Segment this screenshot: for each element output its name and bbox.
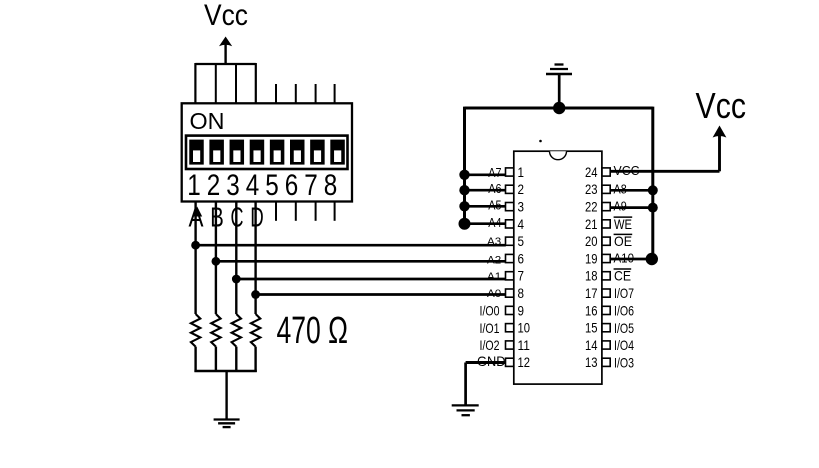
wire net A (DIP pin 1 down to resistor R1) <box>194 202 196 315</box>
svg-text:CE: CE <box>614 269 631 284</box>
wire to U1 pin 3 (A5) <box>465 205 506 208</box>
svg-text:Vcc: Vcc <box>204 0 248 32</box>
wire net D (DIP pin 4 down to resistor R4) <box>254 202 256 315</box>
junction A8 <box>648 185 658 195</box>
ground (top, inverted symbol) <box>546 65 572 75</box>
svg-text:A5: A5 <box>488 197 501 212</box>
svg-text:20: 20 <box>585 234 598 249</box>
wire net A to U1 pin 5 (A3) <box>196 244 506 247</box>
ground (DIP pull-downs) <box>214 420 240 428</box>
junction A5 <box>459 201 469 211</box>
svg-text:A9: A9 <box>614 199 627 214</box>
svg-text:4: 4 <box>518 217 525 232</box>
junction top bus / ground <box>553 102 565 114</box>
svg-text:470 Ω: 470 Ω <box>277 310 349 352</box>
svg-text:10: 10 <box>518 321 531 336</box>
svg-text:I/O4: I/O4 <box>614 338 634 353</box>
ground (U1 GND) <box>452 405 479 415</box>
svg-text:A3: A3 <box>487 236 501 248</box>
svg-text:1: 1 <box>518 165 525 180</box>
wire top ground stem <box>558 74 561 108</box>
svg-text:21: 21 <box>585 217 598 232</box>
svg-text:C: C <box>231 202 244 233</box>
svg-text:5: 5 <box>265 169 279 202</box>
svg-text:I/O0: I/O0 <box>480 304 500 319</box>
svg-text:2: 2 <box>518 182 525 197</box>
wire U1 pin 23 (A8) to bus <box>610 189 653 192</box>
svg-text:18: 18 <box>585 269 598 284</box>
wire to U1 pin 1 (A7) <box>465 173 506 176</box>
svg-text:3: 3 <box>226 169 240 202</box>
svg-text:6: 6 <box>518 251 525 266</box>
wire net C to U1 pin 7 (A1) <box>236 278 506 281</box>
wire to U1 pin 2 (A6) <box>465 189 506 192</box>
wire R4 bottom to bus <box>254 347 256 372</box>
wire right vertical bus (A8/A9/A10 tie) <box>651 107 654 259</box>
svg-text:23: 23 <box>585 182 598 197</box>
svg-text:5: 5 <box>518 234 525 249</box>
DIP switch S1 top pins 1-4 commoned to Vcc <box>195 63 255 104</box>
svg-text:1: 1 <box>187 169 201 202</box>
wire to U1 pin 4 (A4) <box>465 222 506 225</box>
power symbol arrow Vcc (IC) <box>713 126 727 138</box>
U1 left pin boxes 1-12 <box>506 168 514 367</box>
DIP switch S1 actuator row <box>186 136 348 169</box>
resistor R1 470 ohm <box>191 314 200 347</box>
svg-text:22: 22 <box>585 200 598 215</box>
svg-text:8: 8 <box>324 169 338 202</box>
svg-text:15: 15 <box>585 321 598 336</box>
resistor R2 470 ohm <box>211 314 220 347</box>
wire net D to U1 pin 8 (A0) <box>256 293 506 296</box>
junction A9 <box>648 203 658 213</box>
junction A6 <box>459 185 469 195</box>
svg-text:19: 19 <box>585 251 598 266</box>
svg-text:A1: A1 <box>487 271 501 283</box>
wire R2 bottom to bus <box>215 347 217 372</box>
wire U1 pin 19 (A10) to bus <box>610 258 653 261</box>
svg-text:A2: A2 <box>487 254 501 266</box>
svg-text:12: 12 <box>518 355 531 370</box>
wire net B to U1 pin 6 (A2) <box>216 260 506 263</box>
junction A7 <box>459 170 469 180</box>
svg-text:14: 14 <box>585 338 598 353</box>
U1 right pin boxes 24-13 <box>602 168 610 367</box>
U1 pin numbers left 1-12 <box>518 165 531 370</box>
svg-text:7: 7 <box>518 269 525 284</box>
svg-text:D: D <box>250 202 264 233</box>
svg-text:8: 8 <box>518 286 525 301</box>
svg-text:I/O7: I/O7 <box>614 286 634 301</box>
svg-text:13: 13 <box>585 355 598 370</box>
junction net B <box>212 257 221 266</box>
svg-text:I/O1: I/O1 <box>480 321 500 336</box>
resistor R4 470 ohm <box>251 314 260 347</box>
svg-text:6: 6 <box>285 169 299 202</box>
svg-text:I/O2: I/O2 <box>480 338 500 353</box>
svg-text:3: 3 <box>518 200 525 215</box>
svg-text:I/O6: I/O6 <box>614 304 634 319</box>
svg-text:24: 24 <box>585 165 598 180</box>
DIP switch S1 position numbers 1-8 <box>187 169 337 202</box>
wire resistor bottom bus <box>194 370 256 372</box>
junction net C <box>232 275 241 284</box>
svg-text:B: B <box>210 202 224 233</box>
wire top horizontal bus <box>465 107 653 110</box>
svg-text:16: 16 <box>585 303 598 318</box>
U1 pin numbers right 24-13 <box>585 165 598 370</box>
svg-text:I/O5: I/O5 <box>614 321 634 336</box>
svg-text:A0: A0 <box>487 288 501 300</box>
U1 left pin labels <box>477 165 506 369</box>
svg-text:I/O3: I/O3 <box>614 355 634 370</box>
wire R3 bottom to bus <box>235 347 237 372</box>
svg-text:WE: WE <box>614 217 632 232</box>
DIP switch S1 bottom pin stubs 5-8 <box>276 202 335 221</box>
svg-text:4: 4 <box>246 169 260 202</box>
junction A4 <box>459 218 471 230</box>
svg-text:A6: A6 <box>488 181 501 196</box>
IC U1 (6116 SRAM) body <box>514 151 602 384</box>
resistor R3 470 ohm <box>232 314 241 347</box>
junction net D <box>251 290 260 299</box>
svg-text:7: 7 <box>304 169 318 202</box>
svg-text:17: 17 <box>585 286 598 301</box>
DIP switch S1 top pin stubs 5-8 <box>276 84 335 104</box>
svg-text:2: 2 <box>207 169 221 202</box>
wire U1 pin 24 (VCC) to Vcc arrow <box>610 135 719 171</box>
wire U1 pin 22 (A9) to bus <box>610 206 653 209</box>
svg-text:A7: A7 <box>488 165 501 180</box>
wire U1 pin 12 (GND) to ground <box>466 363 506 405</box>
U1 right pin labels <box>614 163 640 370</box>
node label A <box>189 202 204 233</box>
junction A10 <box>646 253 658 265</box>
svg-text:A: A <box>189 202 204 233</box>
svg-text:9: 9 <box>518 303 525 318</box>
svg-text:A8: A8 <box>614 181 627 196</box>
stray mark above U1 <box>539 140 542 143</box>
svg-text:11: 11 <box>518 338 531 353</box>
svg-text:ON: ON <box>190 108 225 134</box>
wire left vertical bus (A7-A4 tie) <box>463 107 466 225</box>
wire net B (DIP pin 2 down to resistor R2) <box>215 202 217 315</box>
DIP switch S1 body <box>182 103 352 201</box>
power symbol arrow Vcc (DIP) <box>219 37 232 65</box>
wire net C (DIP pin 3 down to resistor R3) <box>235 202 237 315</box>
svg-text:OE: OE <box>614 234 632 249</box>
wire bus to ground <box>225 371 227 419</box>
junction net A <box>191 241 200 250</box>
wire R1 bottom to bus <box>194 347 196 372</box>
svg-text:Vcc: Vcc <box>696 85 747 126</box>
